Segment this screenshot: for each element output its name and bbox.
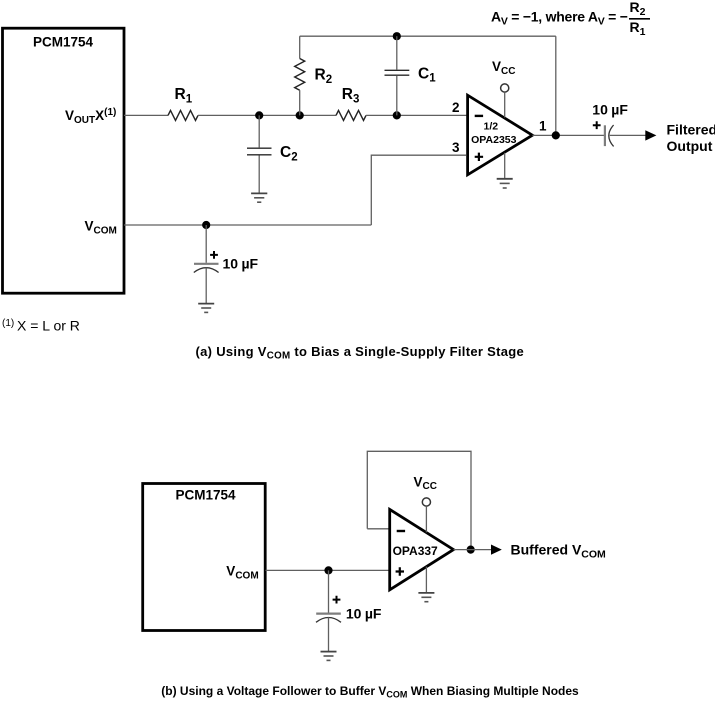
svg-text:1/2: 1/2 — [483, 120, 498, 132]
footnote (1) X = L or R — [2, 318, 80, 334]
ground (op-amp a) — [497, 153, 513, 188]
plus input symbol (b) — [396, 567, 404, 575]
arrowhead (buffered output) — [491, 545, 502, 555]
svg-text:OPA337: OPA337 — [393, 544, 438, 558]
svg-text:OPA2353: OPA2353 — [471, 134, 516, 146]
feedback top wire — [300, 35, 556, 37]
wire output (b) — [454, 549, 492, 551]
svg-text:(a) Using VCOM to Bias a Singl: (a) Using VCOM to Bias a Single-Supply F… — [196, 344, 525, 362]
power VCC (b) — [414, 474, 437, 532]
ground (C2) — [251, 193, 267, 202]
wire VCOM (a) — [124, 224, 371, 226]
IC U3 PCM1754 (circuit b) — [143, 484, 266, 631]
caption (b) — [161, 684, 579, 699]
wire VOUT to R1 — [124, 114, 168, 116]
svg-text:Filtered: Filtered — [667, 122, 715, 138]
wire to output arrow — [610, 134, 646, 136]
pin label VCOM (b) — [226, 564, 258, 582]
capacitor C2 — [247, 115, 272, 193]
svg-text:AV = −1, where AV = −: AV = −1, where AV = − — [491, 9, 628, 28]
minus input symbol — [475, 115, 483, 117]
label R3 — [342, 86, 360, 105]
op-amp U4 OPA337 — [390, 509, 454, 589]
ground (op-amp b) — [418, 567, 434, 602]
node junction output — [552, 131, 560, 139]
node junction C — [393, 111, 401, 119]
label Buffered VCOM — [511, 541, 607, 560]
svg-text:10 µF: 10 µF — [223, 255, 259, 271]
svg-text:1: 1 — [539, 119, 547, 134]
node junction B — [296, 111, 304, 119]
resistor R2 — [295, 36, 305, 115]
caption (a) — [196, 344, 525, 362]
svg-text:(1): (1) — [2, 318, 14, 329]
svg-text:X = L or R: X = L or R — [17, 318, 80, 334]
label Filtered Output — [667, 122, 715, 155]
plus polarity mark (VCOM a cap) — [210, 251, 218, 259]
pin label VCOM (a) — [85, 219, 117, 237]
feedback right vertical wire — [555, 36, 557, 135]
ground (b cap) — [321, 652, 337, 661]
node junction VCOM (a) — [202, 221, 210, 229]
op-amp U2 1/2 OPA2353 — [468, 95, 533, 175]
svg-text:Output: Output — [667, 138, 713, 154]
node junction output (b) — [467, 546, 475, 554]
label C1 — [418, 65, 436, 84]
capacitor C1 — [385, 36, 410, 115]
label R1 — [175, 86, 193, 105]
plus input symbol — [475, 153, 483, 161]
label C2 — [280, 144, 298, 163]
resistor R3 — [336, 110, 366, 120]
plus polarity mark (output cap) — [593, 121, 601, 129]
wire R3 to pin 2 — [366, 114, 467, 116]
node junction VCOM (b) — [324, 566, 332, 574]
svg-text:3: 3 — [452, 140, 460, 155]
gain formula Av = -1 — [491, 0, 650, 38]
wire VCOM (b) — [266, 569, 390, 571]
svg-text:PCM1754: PCM1754 — [175, 488, 236, 503]
node junction D — [393, 32, 401, 40]
wire to minus input (b) — [367, 528, 388, 530]
svg-text:PCM1754: PCM1754 — [33, 35, 94, 50]
polarized capacitor 10uF (VCOM a) — [194, 225, 219, 303]
polarized capacitor 10uF (output) — [605, 125, 614, 146]
power VCC (a) — [492, 59, 515, 118]
plus polarity mark (b cap) — [333, 596, 341, 604]
polarized capacitor 10uF (b) — [316, 570, 341, 651]
svg-text:10 µF: 10 µF — [346, 605, 382, 621]
node junction A — [255, 111, 263, 119]
svg-text:10 µF: 10 µF — [592, 101, 628, 117]
svg-text:(b) Using a Voltage Follower t: (b) Using a Voltage Follower to Buffer V… — [161, 684, 579, 699]
IC U1 PCM1754 (circuit a) — [3, 28, 125, 293]
label R2 — [315, 67, 333, 86]
minus input symbol (b) — [397, 530, 405, 532]
wire R1 to R3 — [198, 114, 336, 116]
wire VCOM riser to pin 3 — [371, 155, 466, 225]
arrowhead (filtered output) — [645, 130, 656, 140]
ground (VCOM a cap) — [198, 304, 214, 313]
pin label VOUTX(1) — [65, 107, 116, 126]
wire op-amp output — [532, 134, 604, 136]
svg-text:2: 2 — [452, 100, 460, 115]
feedback loop wire (b) — [367, 451, 471, 549]
resistor R1 — [168, 110, 198, 120]
